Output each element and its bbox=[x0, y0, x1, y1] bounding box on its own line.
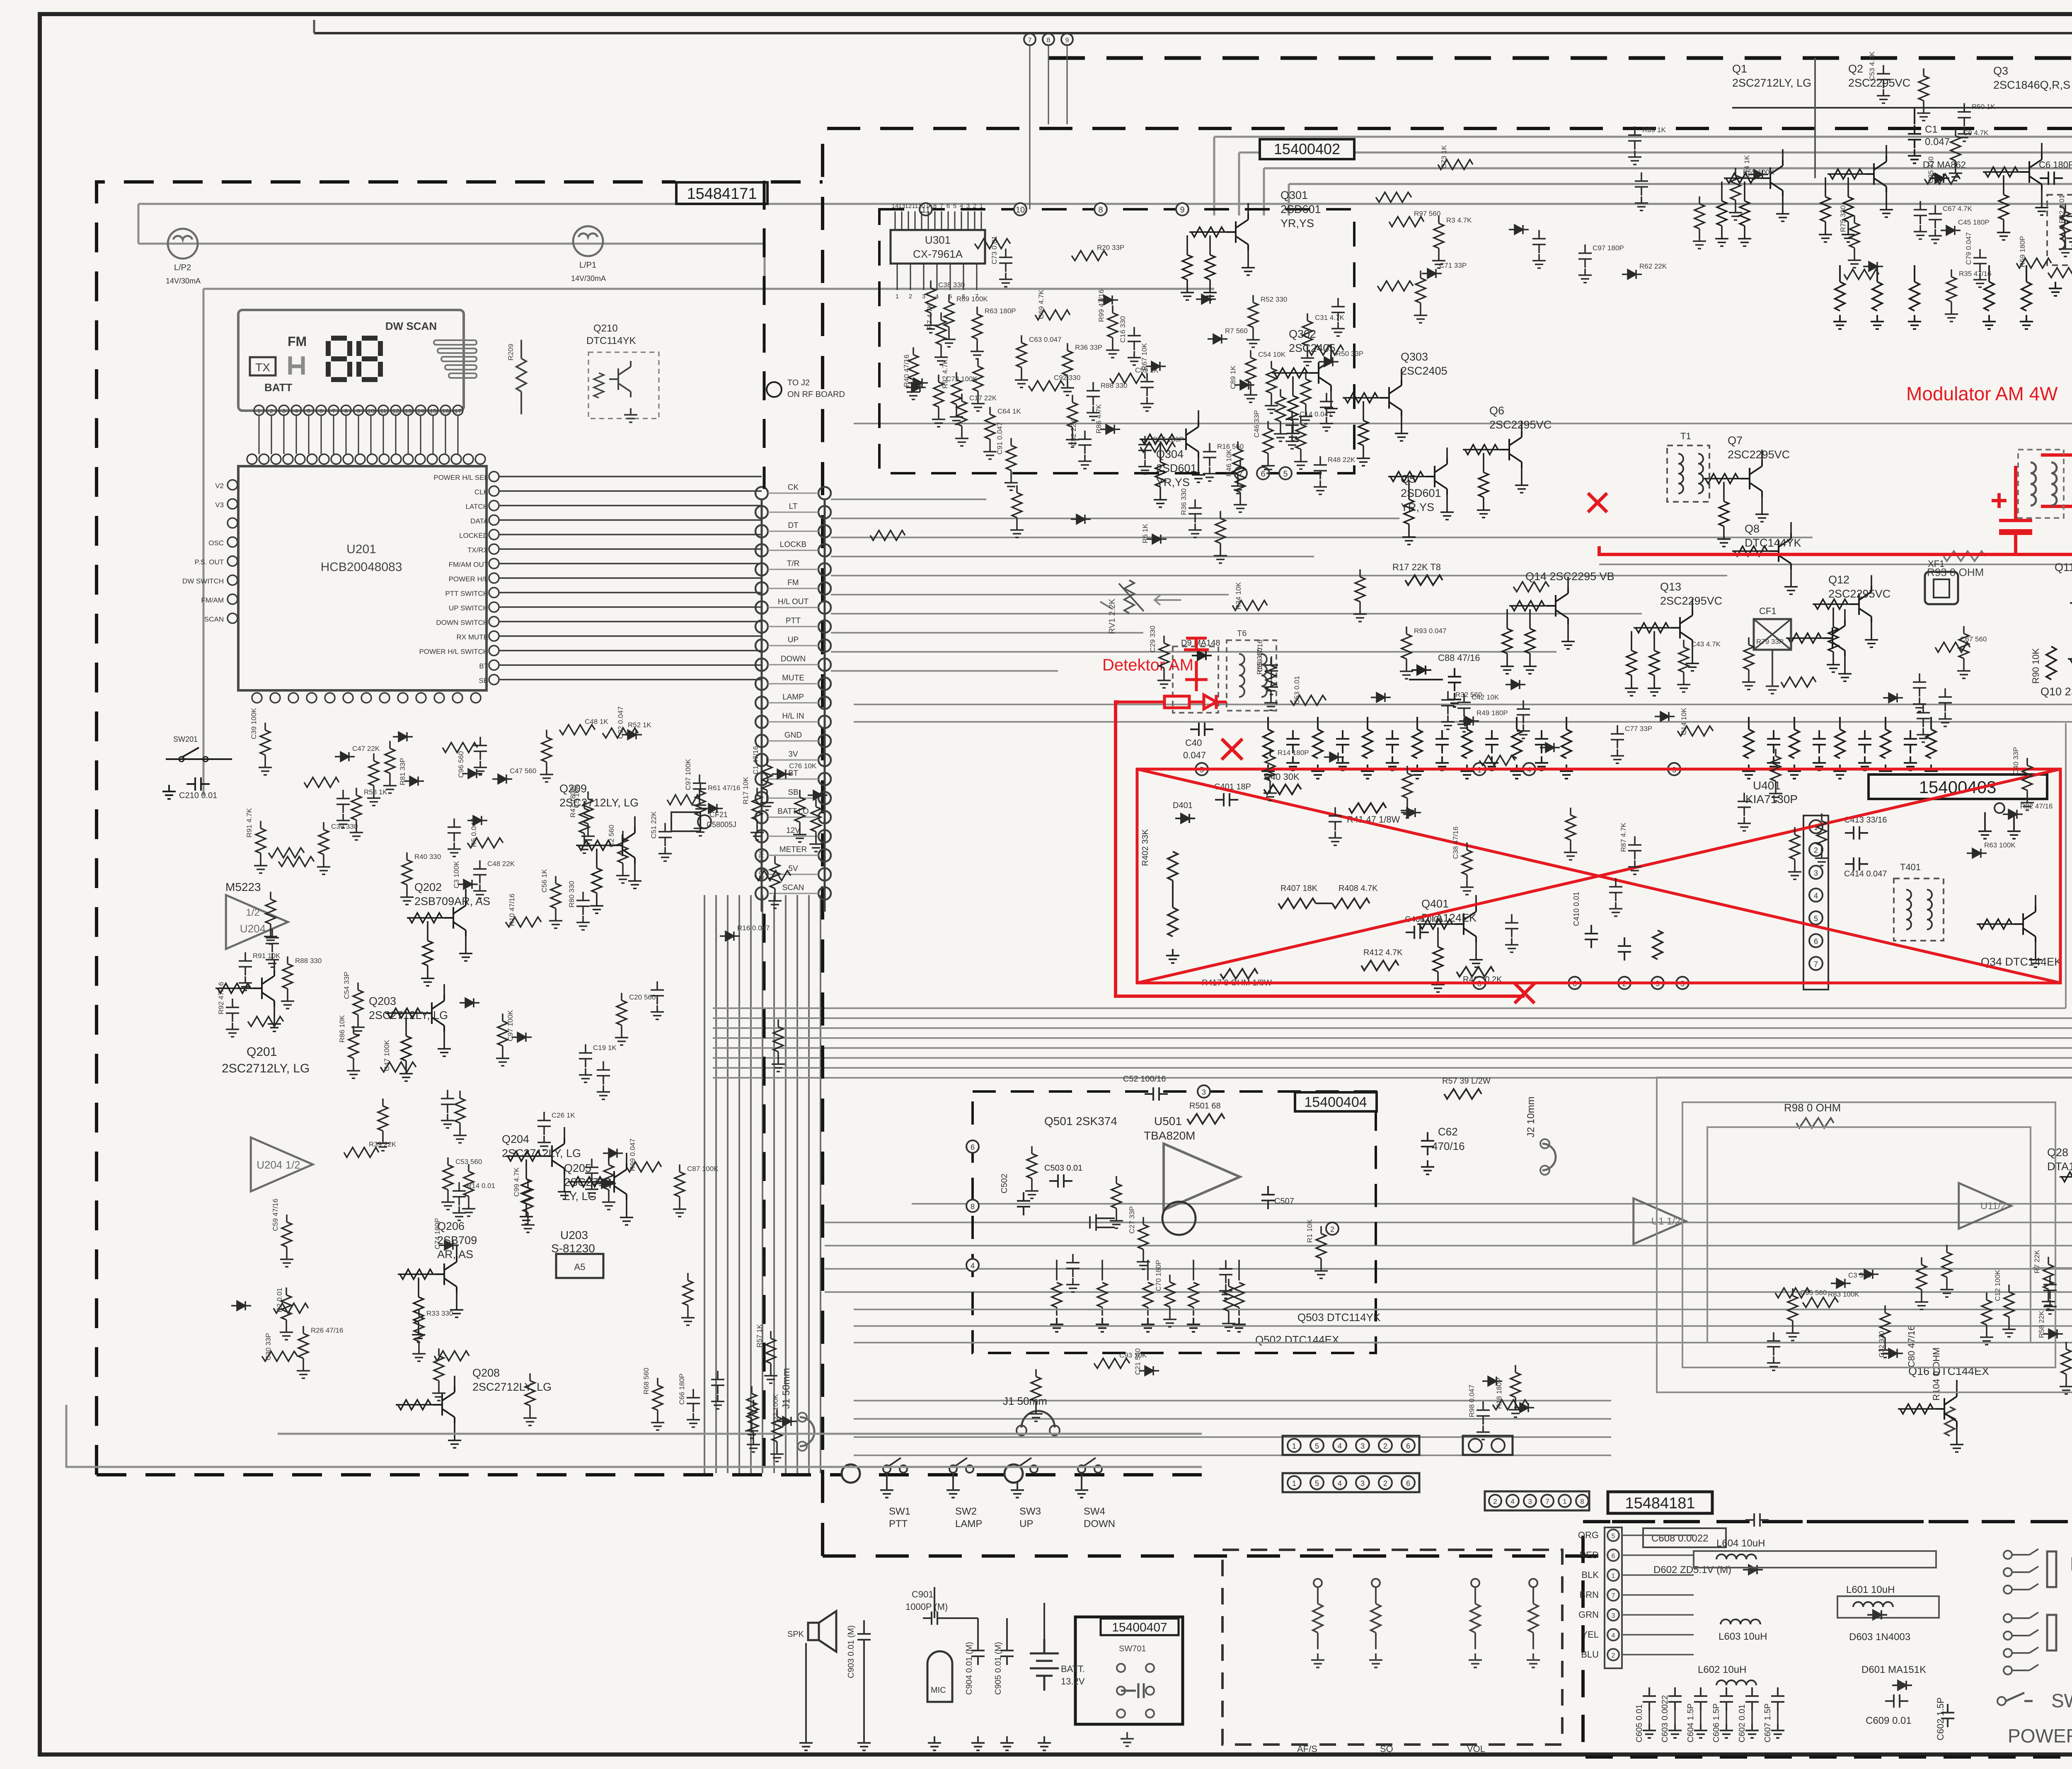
capacitor C903 bbox=[857, 1625, 871, 1648]
ic U201 box bbox=[238, 466, 487, 690]
capacitor C1 0.047 bbox=[1914, 108, 1915, 124]
R93 0 OHM resistor bbox=[1944, 551, 1985, 561]
wires bottom-left bbox=[806, 1587, 1044, 1736]
transistor Q1 2SC2712 bbox=[1715, 63, 1811, 246]
svg-text:R407 18K: R407 18K bbox=[1280, 884, 1318, 893]
svg-text:3: 3 bbox=[1360, 1442, 1365, 1450]
capacitor C507 bbox=[1261, 1186, 1275, 1209]
svg-text:U11/2: U11/2 bbox=[1980, 1200, 2006, 1212]
capacitor C406 bbox=[1406, 926, 1429, 939]
resistors 404 bottom row bbox=[1052, 1260, 1244, 1316]
svg-text:MUTE: MUTE bbox=[782, 674, 804, 682]
svg-text:R36 33P: R36 33P bbox=[1075, 344, 1102, 351]
svg-text:D601 MA151K: D601 MA151K bbox=[1861, 1664, 1926, 1675]
svg-text:R88 330: R88 330 bbox=[1101, 382, 1127, 390]
svg-text:C96 560: C96 560 bbox=[457, 751, 465, 778]
ceramic filter CF1 bbox=[1754, 619, 1791, 650]
svg-text:R35 47/16: R35 47/16 bbox=[1959, 270, 1991, 278]
svg-text:12V: 12V bbox=[786, 826, 800, 835]
transformer T5 bbox=[1173, 646, 1218, 713]
red modulator diode tap bbox=[2041, 453, 2072, 457]
svg-text:SW701: SW701 bbox=[1119, 1644, 1146, 1653]
svg-text:C97 100K: C97 100K bbox=[684, 759, 692, 790]
svg-text:Q12: Q12 bbox=[1828, 574, 1849, 586]
diode D401 bbox=[1175, 814, 1195, 823]
diode D601 MA151K bbox=[1892, 1681, 1912, 1690]
svg-text:R92 47/16: R92 47/16 bbox=[217, 982, 225, 1014]
svg-text:R86 4.7K: R86 4.7K bbox=[1095, 404, 1103, 433]
svg-text:C30 33P: C30 33P bbox=[264, 1333, 272, 1360]
crystal XF1 bbox=[1925, 572, 1958, 604]
red modulator wire second bbox=[2041, 329, 2072, 506]
svg-text:C1: C1 bbox=[1925, 124, 1938, 135]
LCD signal meter bars bbox=[434, 340, 477, 378]
svg-text:LAMP: LAMP bbox=[782, 693, 804, 702]
transformer T1 dashed bbox=[1667, 445, 1709, 502]
transistor Q16 DTC144EX bbox=[1898, 1365, 1989, 1452]
svg-text:U1 1/2: U1 1/2 bbox=[1651, 1216, 1681, 1227]
svg-text:C905 0.01 (M): C905 0.01 (M) bbox=[994, 1642, 1003, 1695]
jack MIC J601 bbox=[2004, 1612, 2056, 1675]
transistor Q204 2SC2712 bbox=[502, 1127, 581, 1224]
svg-text:6: 6 bbox=[1814, 937, 1818, 946]
transistor Q302 2SC2405 bbox=[1272, 328, 1338, 441]
svg-text:YEL: YEL bbox=[1581, 1629, 1599, 1640]
R17 22K resistor bbox=[1405, 575, 1443, 585]
transistor Q206 2SB709 bbox=[398, 1220, 477, 1342]
ic U201 pin circles bbox=[247, 454, 499, 703]
svg-text:BATT.: BATT. bbox=[1061, 1664, 1085, 1674]
svg-text:PTT: PTT bbox=[786, 617, 801, 625]
svg-text:R3 4.7K: R3 4.7K bbox=[1446, 216, 1472, 224]
svg-text:4: 4 bbox=[1510, 1498, 1514, 1505]
svg-text:HCB20048083: HCB20048083 bbox=[321, 560, 402, 574]
svg-text:POWER H/L: POWER H/L bbox=[2008, 1725, 2072, 1747]
svg-text:C74 180P: C74 180P bbox=[433, 1218, 441, 1249]
svg-text:YR,YS: YR,YS bbox=[1401, 501, 1434, 513]
resistor R41 47 bbox=[1349, 803, 1386, 813]
svg-text:1: 1 bbox=[1292, 1479, 1296, 1488]
svg-text:Q1: Q1 bbox=[1732, 63, 1747, 75]
components cluster CPU caps row bbox=[650, 746, 828, 861]
svg-text:Q8: Q8 bbox=[1745, 523, 1760, 535]
svg-text:R80 330: R80 330 bbox=[568, 881, 576, 907]
block 15400402 dashed box bbox=[879, 209, 1354, 473]
svg-text:C31 4.7K: C31 4.7K bbox=[1315, 314, 1345, 322]
svg-text:5: 5 bbox=[953, 203, 956, 210]
svg-text:DT: DT bbox=[788, 521, 799, 530]
ic U203 S-81230 box bbox=[556, 1254, 603, 1278]
svg-text:Q501 2SK374: Q501 2SK374 bbox=[1044, 1115, 1117, 1128]
svg-text:C39 100K: C39 100K bbox=[250, 708, 258, 739]
svg-text:15: 15 bbox=[430, 408, 437, 415]
svg-text:R61 47/16: R61 47/16 bbox=[708, 784, 740, 792]
svg-text:TX: TX bbox=[255, 361, 270, 374]
svg-text:1/2: 1/2 bbox=[246, 907, 259, 918]
svg-text:KIA7130P: KIA7130P bbox=[1745, 793, 1798, 806]
svg-text:R58 22K: R58 22K bbox=[2038, 1310, 2045, 1338]
svg-text:R62 22K: R62 22K bbox=[1639, 262, 1667, 270]
svg-text:1: 1 bbox=[1563, 1498, 1566, 1505]
svg-text:14V/30mA: 14V/30mA bbox=[571, 274, 606, 283]
transistor Q210 DTC114YK bbox=[609, 361, 631, 397]
connector strip B bbox=[1283, 1473, 1419, 1492]
svg-text:SW1: SW1 bbox=[889, 1506, 910, 1517]
svg-text:2SC2295VC: 2SC2295VC bbox=[1660, 595, 1722, 607]
svg-text:7: 7 bbox=[1545, 1498, 1549, 1505]
red X mark on IF wire bbox=[1588, 493, 1607, 512]
grounds 404 bbox=[1050, 1318, 1246, 1332]
svg-text:10: 10 bbox=[368, 408, 375, 415]
LCD pin wires bbox=[259, 415, 458, 454]
svg-text:Q302: Q302 bbox=[1289, 328, 1316, 340]
transistor Q10 2SC2295 bbox=[2041, 630, 2072, 702]
svg-text:C48 22K: C48 22K bbox=[487, 860, 515, 868]
svg-text:FM/AM: FM/AM bbox=[201, 596, 224, 604]
speaker SPK bbox=[808, 1611, 836, 1652]
svg-text:8: 8 bbox=[933, 203, 937, 210]
svg-text:4: 4 bbox=[971, 1262, 975, 1270]
svg-text:R87 4.7K: R87 4.7K bbox=[1619, 822, 1627, 852]
svg-text:R52 330: R52 330 bbox=[1261, 295, 1287, 303]
switches SW1 PTT SW2 LAMP SW3 UP SW4 DOWN bbox=[880, 1458, 1115, 1529]
svg-text:R14 180P: R14 180P bbox=[1278, 749, 1309, 757]
svg-text:6: 6 bbox=[1261, 469, 1265, 479]
svg-text:LT: LT bbox=[789, 502, 798, 511]
svg-text:RX MUTE: RX MUTE bbox=[457, 633, 489, 641]
svg-text:0.047: 0.047 bbox=[1925, 136, 1950, 148]
transistor Q12b 2SC2295 bbox=[1786, 609, 1852, 681]
transistor Q3 2SC1846 bbox=[1983, 65, 2070, 240]
svg-text:10: 10 bbox=[918, 203, 925, 210]
transistor Q2 2SC2295 bbox=[1819, 63, 1910, 242]
ic U301 box bbox=[891, 230, 985, 264]
svg-text:C66 180P: C66 180P bbox=[678, 1373, 686, 1405]
svg-text:C47 22K: C47 22K bbox=[352, 745, 380, 753]
svg-text:2SC2712LY, LG: 2SC2712LY, LG bbox=[222, 1062, 310, 1075]
svg-text:C53 0.01: C53 0.01 bbox=[1293, 676, 1301, 704]
svg-text:YR,YS: YR,YS bbox=[1280, 217, 1314, 230]
svg-text:C14 10K: C14 10K bbox=[1680, 707, 1688, 735]
svg-text:Q6: Q6 bbox=[1489, 404, 1504, 417]
svg-text:Q14 2SC2295 VB: Q14 2SC2295 VB bbox=[1525, 570, 1615, 583]
inductor L602 10uH bbox=[1716, 1680, 1756, 1685]
svg-text:C603 0.0022: C603 0.0022 bbox=[1661, 1695, 1670, 1742]
svg-text:SW2: SW2 bbox=[955, 1506, 977, 1517]
ic U401 pin header bbox=[1809, 820, 1823, 970]
U204 op-amp half 2 bbox=[251, 1137, 313, 1191]
svg-text:6: 6 bbox=[320, 408, 323, 415]
wire gray bus network bbox=[138, 87, 2072, 1473]
junction circle 404 pin2 bbox=[1326, 1222, 1339, 1235]
svg-text:C51 22K: C51 22K bbox=[650, 811, 658, 839]
svg-text:DOWN SWITCH: DOWN SWITCH bbox=[436, 619, 488, 627]
svg-text:R93 0.047: R93 0.047 bbox=[1414, 627, 1446, 635]
svg-text:R82 47/16: R82 47/16 bbox=[2020, 802, 2053, 810]
svg-text:3: 3 bbox=[1814, 869, 1818, 877]
svg-text:VOL: VOL bbox=[1467, 1744, 1485, 1754]
svg-text:DTC144YK: DTC144YK bbox=[1745, 537, 1801, 549]
svg-text:C20 560: C20 560 bbox=[629, 993, 656, 1001]
svg-text:SW4: SW4 bbox=[1084, 1506, 1105, 1517]
svg-text:BT: BT bbox=[479, 662, 488, 670]
components cluster RF top extra2 bbox=[1376, 126, 1774, 323]
junction circles on bottom dashed edge bbox=[842, 1464, 860, 1483]
lamp L/P2 bbox=[168, 229, 198, 259]
svg-text:3: 3 bbox=[966, 203, 970, 210]
RF board dashed outline B bbox=[823, 77, 2072, 1556]
svg-text:C46 33P: C46 33P bbox=[1253, 410, 1261, 438]
svg-text:C503 0.01: C503 0.01 bbox=[1044, 1164, 1082, 1173]
svg-text:C69 4.7K: C69 4.7K bbox=[1037, 289, 1045, 319]
components cluster 402 mid extra4 bbox=[924, 281, 1363, 494]
connector strip C bbox=[1463, 1436, 1513, 1455]
svg-text:R7 22K: R7 22K bbox=[2033, 1250, 2041, 1273]
resistor R417 bbox=[1220, 969, 1258, 979]
svg-text:LOCKED: LOCKED bbox=[459, 532, 488, 540]
svg-text:C35 330: C35 330 bbox=[1927, 157, 1935, 183]
svg-text:CK: CK bbox=[788, 483, 799, 492]
svg-text:C410 0.01: C410 0.01 bbox=[1572, 892, 1581, 926]
IF resistor row bbox=[1261, 717, 2072, 779]
svg-text:3: 3 bbox=[1202, 1088, 1206, 1096]
svg-text:5: 5 bbox=[1315, 1479, 1319, 1488]
inductor L603 10uH bbox=[1721, 1619, 1760, 1624]
svg-text:R209: R209 bbox=[507, 344, 515, 361]
svg-text:UP: UP bbox=[1019, 1518, 1033, 1529]
svg-text:16: 16 bbox=[442, 408, 449, 415]
svg-text:R40 330: R40 330 bbox=[414, 853, 441, 861]
svg-text:C904 0.01 (M): C904 0.01 (M) bbox=[965, 1642, 974, 1695]
svg-text:R63 100K: R63 100K bbox=[1984, 841, 2016, 849]
svg-text:C93 10K: C93 10K bbox=[1119, 1351, 1147, 1359]
svg-text:2SD601: 2SD601 bbox=[1401, 487, 1441, 499]
svg-text:DTC114YK: DTC114YK bbox=[586, 335, 636, 346]
svg-text:13: 13 bbox=[898, 203, 905, 210]
svg-text:C32 330: C32 330 bbox=[1878, 1331, 1886, 1358]
svg-text:T1: T1 bbox=[1680, 431, 1691, 441]
transistor Q34 DTC144EK bbox=[1977, 895, 2062, 968]
svg-text:C414 0.047: C414 0.047 bbox=[1844, 869, 1887, 878]
svg-text:R86 10K: R86 10K bbox=[338, 1015, 346, 1043]
svg-text:V3: V3 bbox=[215, 501, 224, 509]
jack PHONE J602 bbox=[2004, 1549, 2056, 1594]
capacitor C609 0.01 bbox=[1885, 1694, 1908, 1708]
svg-text:R57 39 L/2W: R57 39 L/2W bbox=[1442, 1077, 1491, 1086]
capacitor C502 C503 bbox=[1049, 1174, 1072, 1188]
svg-text:FM/AM OUT: FM/AM OUT bbox=[449, 561, 488, 569]
svg-text:Q10 2SC2295 VB: Q10 2SC2295 VB bbox=[2041, 685, 2072, 698]
transistor Q501 FET bbox=[1162, 1202, 1196, 1235]
resistor R412 bbox=[1361, 961, 1399, 970]
svg-text:Q13: Q13 bbox=[1660, 581, 1681, 593]
svg-text:C98 4.7K: C98 4.7K bbox=[758, 850, 765, 880]
svg-text:POWER H/L: POWER H/L bbox=[449, 575, 488, 583]
svg-text:Q208: Q208 bbox=[472, 1367, 500, 1379]
svg-text:Detektor AM: Detektor AM bbox=[1102, 656, 1193, 674]
label box 15484181 bbox=[1608, 1492, 1712, 1513]
svg-text:C12 100K: C12 100K bbox=[1994, 1270, 2002, 1301]
resistor R209 near LCD bbox=[516, 358, 526, 392]
components cluster RF strip extra3 bbox=[1839, 179, 2072, 322]
junction circles on 403 top edge bbox=[1196, 763, 1680, 775]
wires to J6 bundle bbox=[854, 1268, 2072, 1513]
svg-text:R69 0.047: R69 0.047 bbox=[629, 1139, 637, 1171]
svg-text:C608 0.0022: C608 0.0022 bbox=[1651, 1533, 1708, 1544]
svg-text:2SC2405: 2SC2405 bbox=[1401, 365, 1447, 377]
svg-text:R501 68: R501 68 bbox=[1189, 1101, 1221, 1111]
svg-text:R408 4.7K: R408 4.7K bbox=[1339, 884, 1378, 893]
svg-text:SW201: SW201 bbox=[173, 735, 198, 743]
svg-text:U203: U203 bbox=[560, 1229, 588, 1241]
svg-text:6: 6 bbox=[1612, 1553, 1615, 1560]
svg-text:C16 330: C16 330 bbox=[1119, 316, 1127, 343]
audio section wire loop bbox=[1657, 1077, 2072, 1392]
components cluster audio right dense bbox=[2033, 1092, 2072, 1433]
svg-text:AR, AS: AR, AS bbox=[437, 1248, 473, 1261]
IF cap row bbox=[1286, 730, 1917, 770]
svg-text:6: 6 bbox=[1406, 1442, 1410, 1450]
diode D602 zener bbox=[1743, 1565, 1763, 1574]
svg-text:Q7: Q7 bbox=[1728, 434, 1743, 447]
diode D9 MA148 bbox=[1192, 651, 1212, 660]
svg-text:C99 4.7K: C99 4.7K bbox=[513, 1167, 520, 1197]
transistor Q5 2SD601 bbox=[1388, 448, 1454, 544]
svg-text:C26 1K: C26 1K bbox=[552, 1111, 575, 1119]
caps between Q2 Q3 bbox=[2040, 172, 2063, 185]
resistor R410 bbox=[1457, 967, 1494, 977]
svg-text:DTA124EX: DTA124EX bbox=[2047, 1160, 2072, 1173]
components cluster left column bbox=[217, 952, 495, 1401]
svg-text:1: 1 bbox=[1292, 1442, 1296, 1450]
svg-text:R7 560: R7 560 bbox=[1225, 327, 1248, 335]
transistor Q401 DTA124EX bbox=[1417, 895, 1483, 992]
svg-text:R52 1K: R52 1K bbox=[628, 721, 651, 729]
svg-text:C609 0.01: C609 0.01 bbox=[1866, 1715, 1912, 1726]
svg-text:TX/RX: TX/RX bbox=[467, 546, 488, 554]
diode D603 1N4003 bbox=[1867, 1610, 1887, 1619]
svg-text:3: 3 bbox=[1528, 1498, 1532, 1505]
svg-text:J1 50mm: J1 50mm bbox=[781, 1368, 792, 1409]
svg-text:R5 1K: R5 1K bbox=[1141, 523, 1149, 543]
svg-text:H/L OUT: H/L OUT bbox=[778, 598, 809, 606]
block 15400403 box bbox=[1137, 769, 2060, 983]
svg-text:R1 10K: R1 10K bbox=[1306, 1219, 1314, 1243]
svg-text:L604 10uH: L604 10uH bbox=[1716, 1538, 1765, 1549]
svg-text:C901: C901 bbox=[912, 1589, 934, 1600]
svg-text:Q502 DTC144EX: Q502 DTC144EX bbox=[1255, 1333, 1339, 1346]
label box 15400402 bbox=[1260, 139, 1354, 159]
transistor Q301 2SD601 bbox=[1181, 189, 1321, 300]
capacitor C905 bbox=[1000, 1642, 1014, 1665]
resistor R402 network bbox=[1168, 852, 1178, 881]
components cluster 404 lower bbox=[1029, 1348, 1534, 1440]
svg-text:C210 0.01: C210 0.01 bbox=[179, 791, 217, 800]
svg-text:2: 2 bbox=[1383, 1442, 1387, 1450]
svg-text:R20 33P: R20 33P bbox=[1097, 244, 1124, 252]
svg-text:2SD601: 2SD601 bbox=[1156, 462, 1197, 474]
top rail wires bbox=[1732, 58, 2072, 178]
inductor L604 10uH bbox=[1694, 1551, 1936, 1568]
svg-text:3: 3 bbox=[1612, 1612, 1615, 1619]
transistor Q6 2SC2295 bbox=[1463, 404, 1552, 518]
transistor Q209 2SC2712 bbox=[559, 782, 641, 913]
svg-text:14: 14 bbox=[892, 203, 899, 210]
svg-text:C9 4.7K: C9 4.7K bbox=[1963, 129, 1989, 137]
svg-text:POWER H/L SWITCH: POWER H/L SWITCH bbox=[419, 648, 488, 656]
svg-text:R98 0 OHM: R98 0 OHM bbox=[1784, 1101, 1841, 1114]
connector column 181 bbox=[1605, 1527, 1622, 1668]
svg-text:470/16: 470/16 bbox=[1432, 1140, 1465, 1152]
svg-text:R22 100K: R22 100K bbox=[772, 1394, 779, 1425]
svg-text:4: 4 bbox=[1338, 1442, 1342, 1450]
svg-text:14: 14 bbox=[417, 408, 424, 415]
svg-text:2SC2295VC: 2SC2295VC bbox=[1728, 448, 1790, 461]
svg-text:A5: A5 bbox=[574, 1262, 586, 1272]
svg-text:C602 0.01: C602 0.01 bbox=[1738, 1704, 1747, 1742]
components cluster mid IF extra2 bbox=[870, 422, 1247, 563]
svg-text:C502: C502 bbox=[1000, 1174, 1009, 1193]
svg-text:C607 1.5P: C607 1.5P bbox=[1763, 1703, 1772, 1742]
CPU board right dashed edge bbox=[763, 181, 766, 489]
svg-text:2: 2 bbox=[1330, 1225, 1334, 1234]
transistor Q13 2SC2295 bbox=[1625, 581, 1722, 696]
svg-text:C89 1K: C89 1K bbox=[1229, 365, 1237, 389]
ic U201 right pin wires bbox=[499, 477, 762, 680]
svg-text:SCAN: SCAN bbox=[204, 615, 224, 623]
junction circles 404 left edge bbox=[966, 1140, 979, 1271]
svg-text:R14 0.01: R14 0.01 bbox=[467, 1182, 495, 1190]
LCD TX box bbox=[250, 357, 276, 375]
svg-text:R63 180P: R63 180P bbox=[985, 307, 1016, 315]
svg-text:R46 10K: R46 10K bbox=[1225, 449, 1233, 477]
svg-text:1: 1 bbox=[980, 203, 983, 210]
RF mid row resistors bbox=[1833, 265, 2072, 329]
capacitor C904 bbox=[971, 1642, 985, 1665]
svg-text:CLK: CLK bbox=[474, 488, 489, 496]
svg-text:Q401: Q401 bbox=[1421, 898, 1449, 910]
svg-text:C14 1K: C14 1K bbox=[1743, 155, 1751, 179]
grounds VR row bbox=[1311, 1653, 1540, 1667]
svg-text:13: 13 bbox=[405, 408, 412, 415]
svg-text:C53 4.7K: C53 4.7K bbox=[1868, 51, 1876, 81]
LCD 7-seg digit 2 bbox=[359, 338, 380, 380]
svg-text:R402 33K: R402 33K bbox=[1141, 829, 1150, 866]
components cluster CPU right bbox=[496, 894, 785, 1452]
connector J3 pin columns bbox=[755, 483, 831, 900]
svg-text:10: 10 bbox=[1016, 206, 1025, 215]
svg-text:D602 ZD5.1V (M): D602 ZD5.1V (M) bbox=[1653, 1564, 1731, 1575]
components cluster under U201 extra4 bbox=[245, 708, 651, 873]
svg-text:4: 4 bbox=[1814, 892, 1818, 900]
svg-text:C59 47/16: C59 47/16 bbox=[271, 1199, 279, 1231]
svg-text:PTT: PTT bbox=[889, 1518, 908, 1529]
svg-text:C88 47/16: C88 47/16 bbox=[1438, 653, 1480, 663]
inductor L601 10uH bbox=[1837, 1596, 1939, 1618]
svg-text:SQ: SQ bbox=[1380, 1744, 1393, 1754]
svg-text:R17 10K: R17 10K bbox=[742, 777, 750, 804]
svg-text:P.S. OUT: P.S. OUT bbox=[194, 558, 224, 566]
svg-text:3: 3 bbox=[1360, 1479, 1365, 1488]
svg-text:R91 10K: R91 10K bbox=[253, 952, 281, 960]
capacitor C602 1.5P bbox=[1941, 1704, 1954, 1727]
svg-text:R65 330: R65 330 bbox=[1256, 648, 1264, 675]
svg-text:C56 1K: C56 1K bbox=[540, 869, 548, 893]
LCD H segment bbox=[290, 356, 303, 375]
svg-text:UP SWITCH: UP SWITCH bbox=[449, 604, 488, 612]
svg-text:R89 100K: R89 100K bbox=[956, 295, 988, 303]
svg-text:C73 1K: C73 1K bbox=[1440, 145, 1448, 169]
